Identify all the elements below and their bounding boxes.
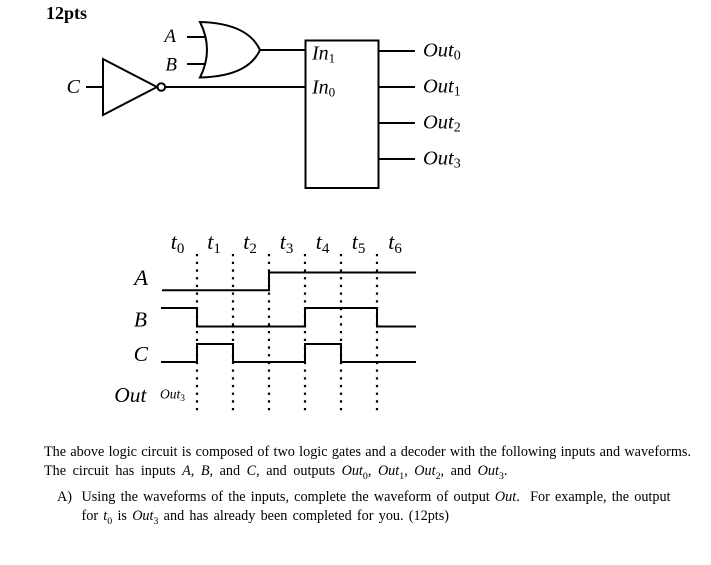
- svg-text:Out3: Out3: [423, 148, 461, 172]
- svg-text:B: B: [134, 308, 147, 332]
- svg-text:Out1: Out1: [423, 76, 461, 100]
- svg-text:t0: t0: [171, 229, 185, 257]
- svg-text:t1: t1: [207, 229, 221, 257]
- svg-text:Out: Out: [114, 383, 147, 407]
- svg-text:t5: t5: [352, 229, 366, 257]
- svg-text:t2: t2: [243, 229, 257, 257]
- svg-text:A: A: [162, 26, 176, 47]
- svg-text:t4: t4: [316, 229, 330, 257]
- svg-text:t6: t6: [388, 229, 402, 257]
- svg-text:C: C: [134, 342, 149, 366]
- svg-text:A: A: [132, 265, 148, 290]
- svg-text:Out2: Out2: [423, 112, 461, 136]
- svg-text:t3: t3: [280, 229, 294, 257]
- svg-text:Out3: Out3: [160, 387, 185, 405]
- svg-text:C: C: [67, 76, 81, 98]
- svg-text:B: B: [165, 55, 177, 76]
- svg-text:Out0: Out0: [423, 40, 461, 64]
